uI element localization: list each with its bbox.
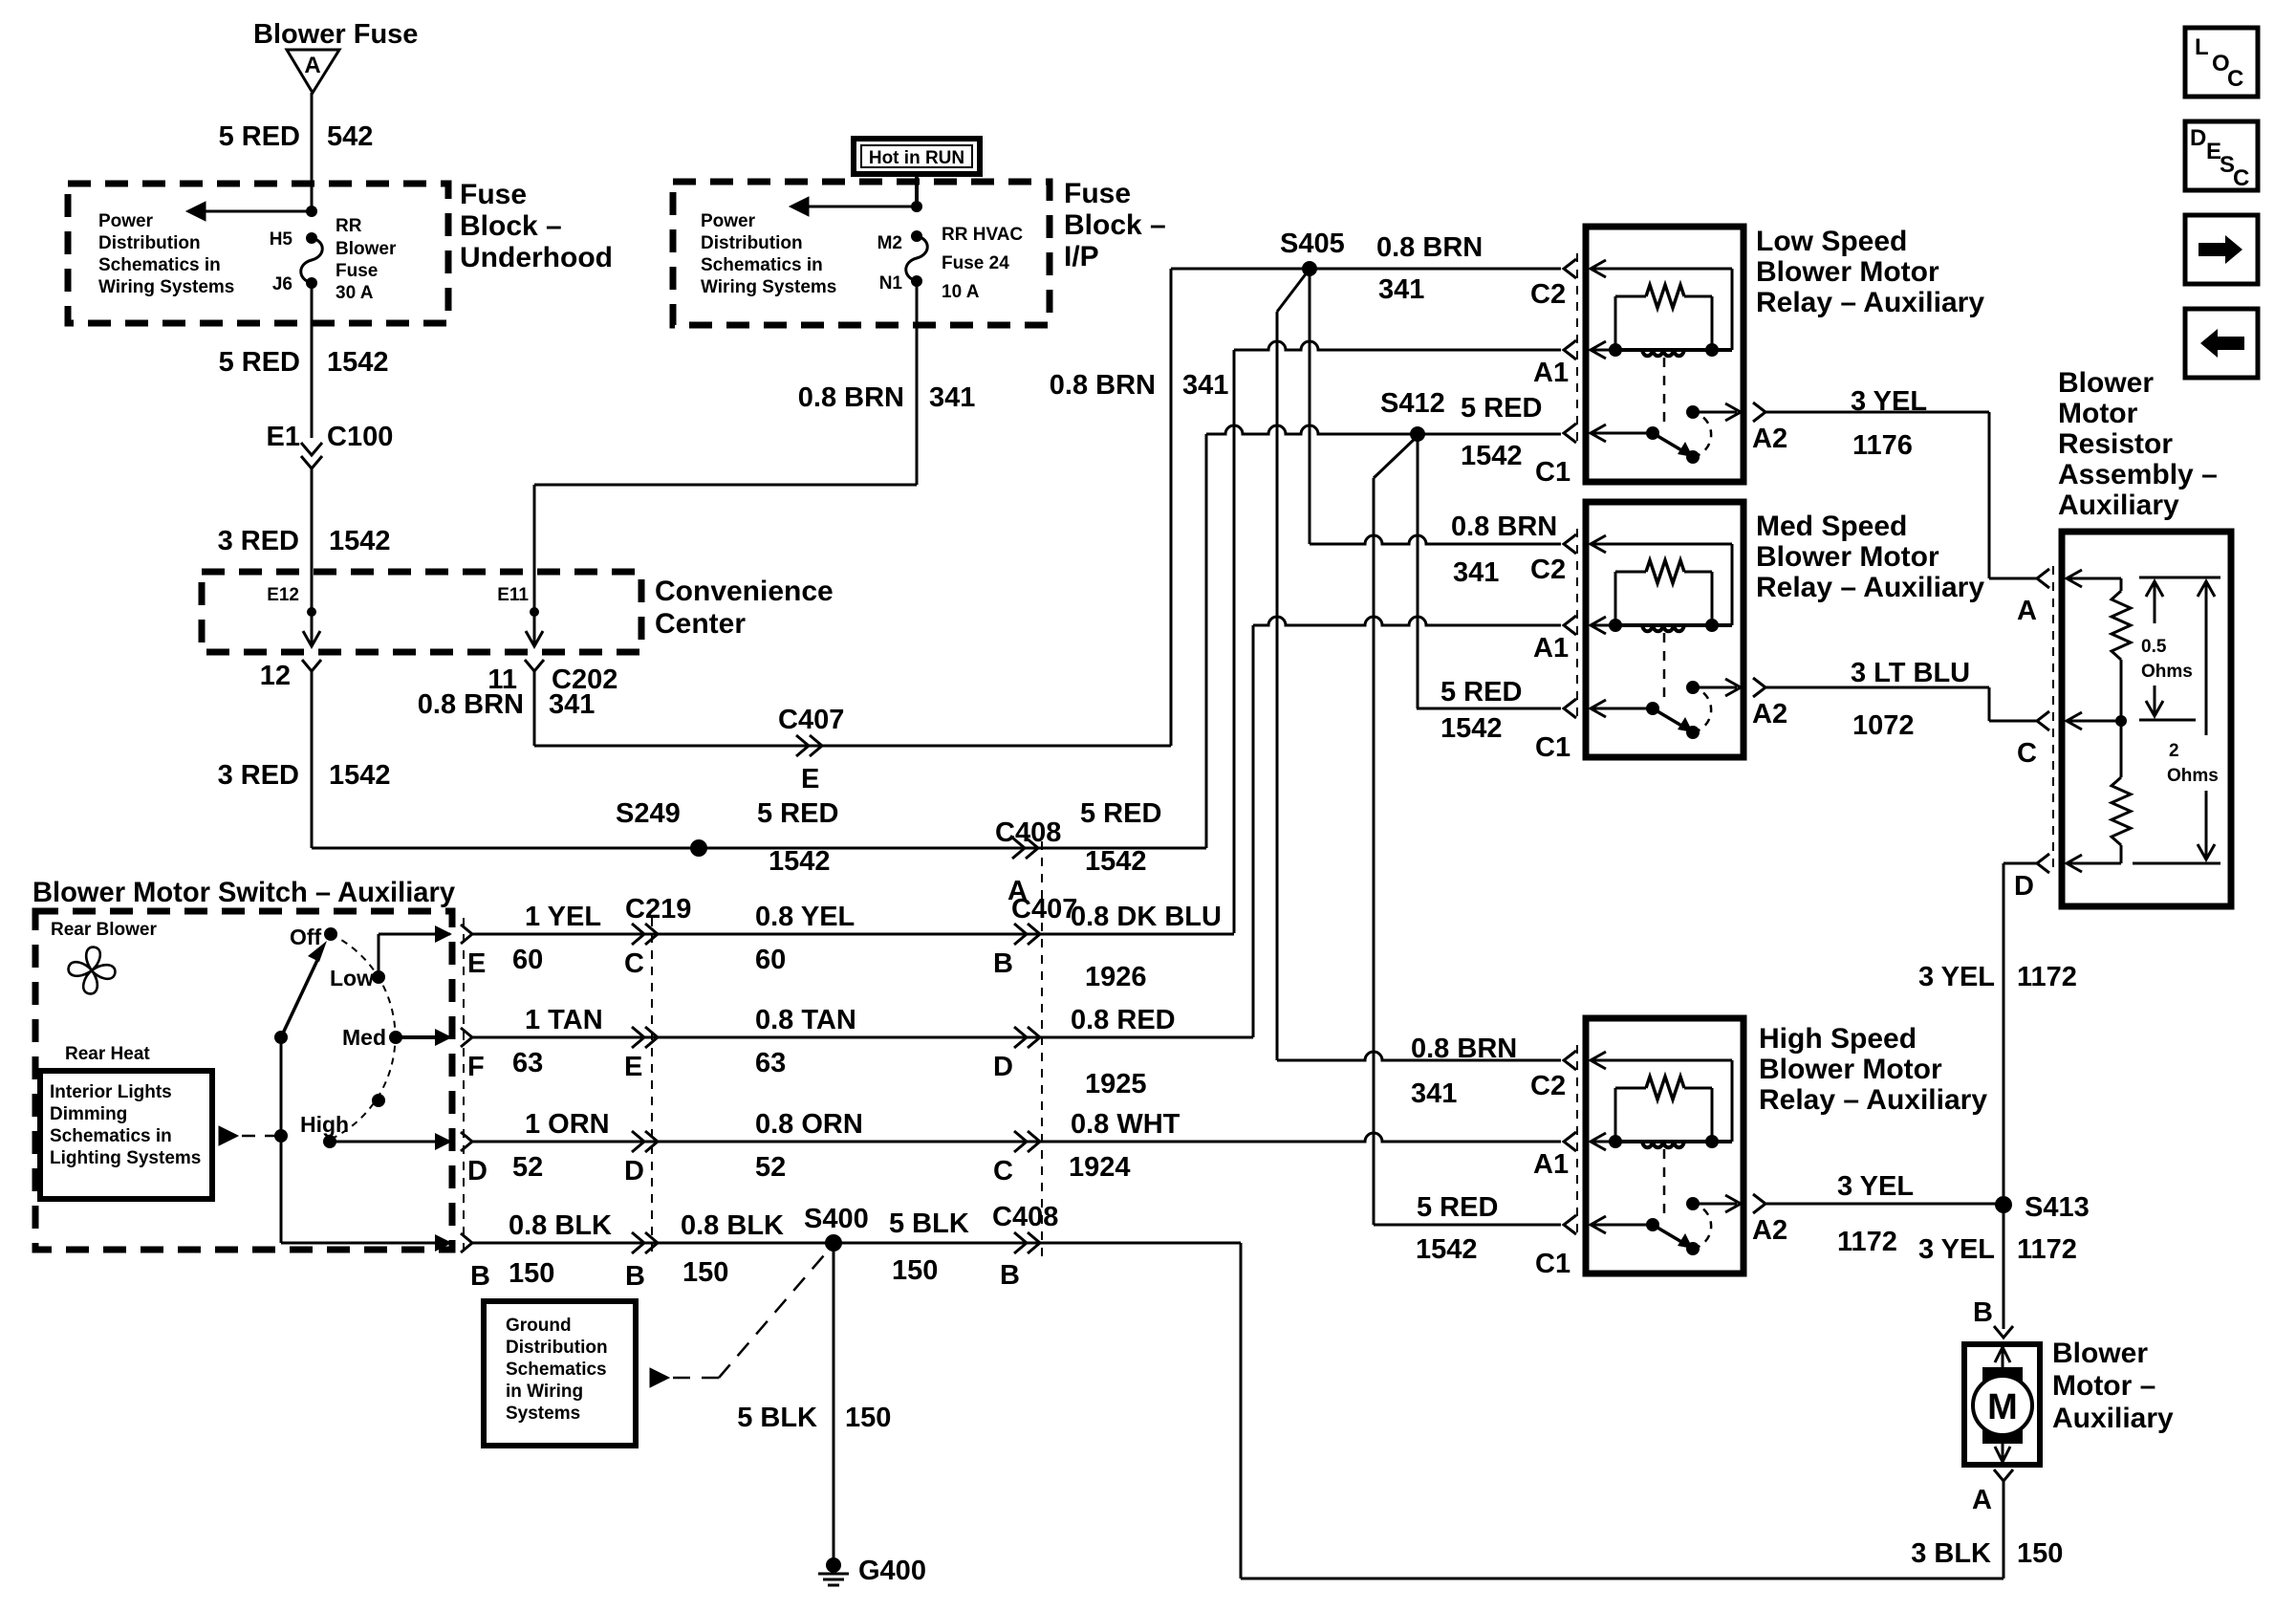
svg-text:C2: C2 [1530, 555, 1566, 585]
svg-text:C1: C1 [1535, 457, 1570, 488]
svg-text:Systems: Systems [506, 1404, 580, 1424]
svg-text:3 YEL: 3 YEL [1918, 962, 1995, 992]
svg-text:I/P: I/P [1064, 241, 1099, 272]
svg-text:Blower Motor Switch – Auxiliar: Blower Motor Switch – Auxiliary [32, 877, 455, 908]
svg-text:0.8 BRN: 0.8 BRN [798, 382, 904, 413]
svg-text:Motor –: Motor – [2052, 1370, 2155, 1402]
svg-text:1542: 1542 [327, 347, 389, 378]
svg-text:0.8 BRN: 0.8 BRN [1376, 232, 1483, 263]
svg-text:C407: C407 [778, 705, 844, 735]
svg-text:Distribution: Distribution [701, 233, 803, 253]
svg-text:A2: A2 [1752, 699, 1787, 729]
svg-text:0.8 BRN: 0.8 BRN [418, 689, 524, 720]
svg-text:A: A [304, 53, 320, 78]
svg-text:Resistor: Resistor [2058, 428, 2173, 460]
svg-text:L: L [2195, 34, 2209, 60]
svg-text:G400: G400 [858, 1556, 926, 1586]
svg-text:1172: 1172 [2017, 1234, 2077, 1265]
svg-text:B: B [470, 1261, 490, 1292]
svg-text:0.8 BLK: 0.8 BLK [681, 1210, 784, 1241]
svg-text:5 RED: 5 RED [757, 798, 838, 829]
svg-text:D: D [2190, 125, 2206, 151]
svg-text:5 RED: 5 RED [219, 121, 300, 152]
svg-text:5 RED: 5 RED [1417, 1192, 1498, 1223]
svg-text:Distribution: Distribution [98, 233, 201, 253]
svg-text:in Wiring: in Wiring [506, 1382, 583, 1402]
svg-text:A2: A2 [1752, 424, 1787, 454]
svg-text:B: B [625, 1261, 645, 1292]
svg-text:Center: Center [655, 608, 746, 640]
svg-text:C: C [2233, 165, 2249, 191]
svg-text:63: 63 [755, 1048, 786, 1078]
svg-text:B: B [1973, 1297, 1993, 1328]
svg-text:1542: 1542 [329, 760, 391, 791]
svg-text:Fuse: Fuse [336, 261, 378, 281]
svg-text:1542: 1542 [1440, 713, 1503, 744]
svg-text:0.8 TAN: 0.8 TAN [755, 1005, 856, 1035]
svg-text:3 RED: 3 RED [218, 760, 299, 791]
svg-text:1172: 1172 [1837, 1227, 1897, 1257]
svg-text:Relay – Auxiliary: Relay – Auxiliary [1759, 1084, 1987, 1116]
svg-text:63: 63 [512, 1048, 543, 1078]
svg-text:Blower: Blower [336, 239, 397, 259]
svg-text:1 TAN: 1 TAN [525, 1005, 603, 1035]
svg-text:H5: H5 [270, 229, 293, 250]
svg-text:A1: A1 [1533, 358, 1569, 388]
svg-text:F: F [467, 1052, 485, 1082]
svg-text:C100: C100 [327, 422, 393, 452]
svg-text:542: 542 [327, 121, 373, 152]
svg-text:D: D [2014, 871, 2034, 902]
svg-text:1926: 1926 [1085, 962, 1147, 992]
svg-text:Off: Off [290, 925, 322, 949]
svg-text:1072: 1072 [1852, 710, 1915, 741]
svg-text:341: 341 [1182, 370, 1228, 401]
svg-text:Relay – Auxiliary: Relay – Auxiliary [1756, 287, 1984, 318]
svg-text:Auxiliary: Auxiliary [2052, 1403, 2174, 1434]
svg-text:C1: C1 [1535, 1249, 1570, 1279]
svg-text:150: 150 [509, 1258, 554, 1289]
svg-text:Blower Motor: Blower Motor [1756, 541, 1939, 573]
svg-text:Auxiliary: Auxiliary [2058, 490, 2179, 521]
svg-text:1542: 1542 [1085, 846, 1147, 877]
svg-text:Ohms: Ohms [2141, 662, 2193, 682]
svg-text:Wiring Systems: Wiring Systems [701, 277, 836, 297]
svg-text:Schematics in: Schematics in [701, 255, 823, 275]
svg-text:Interior Lights: Interior Lights [50, 1082, 172, 1102]
svg-text:Lighting Systems: Lighting Systems [50, 1148, 201, 1168]
svg-text:Med Speed: Med Speed [1756, 511, 1907, 542]
svg-text:Blower Motor: Blower Motor [1756, 256, 1939, 288]
svg-text:Power: Power [98, 211, 154, 231]
svg-text:C2: C2 [1530, 1071, 1566, 1101]
svg-text:52: 52 [512, 1152, 543, 1183]
svg-text:C1: C1 [1535, 732, 1570, 763]
svg-text:3 YEL: 3 YEL [1837, 1171, 1914, 1202]
svg-text:52: 52 [755, 1152, 786, 1183]
svg-text:S412: S412 [1380, 388, 1445, 419]
svg-text:341: 341 [1411, 1078, 1457, 1109]
svg-text:Convenience: Convenience [655, 576, 834, 607]
svg-text:Schematics in: Schematics in [98, 255, 221, 275]
svg-text:E: E [467, 948, 486, 979]
svg-text:1176: 1176 [1852, 430, 1913, 461]
svg-text:RR HVAC: RR HVAC [942, 225, 1023, 245]
svg-text:Rear Blower: Rear Blower [51, 920, 157, 940]
svg-text:Low Speed: Low Speed [1756, 226, 1907, 257]
svg-text:B: B [1000, 1260, 1020, 1291]
svg-text:RR: RR [336, 216, 362, 236]
svg-text:E: E [801, 764, 819, 795]
svg-text:A: A [2017, 596, 2037, 626]
svg-text:Hot in RUN: Hot in RUN [869, 148, 964, 168]
svg-text:Assembly –: Assembly – [2058, 459, 2218, 490]
svg-text:3 YEL: 3 YEL [1851, 386, 1927, 417]
svg-text:0.5: 0.5 [2141, 637, 2167, 657]
svg-text:0.8 YEL: 0.8 YEL [755, 902, 855, 932]
svg-text:Block –: Block – [460, 210, 562, 242]
svg-text:1542: 1542 [1461, 441, 1523, 471]
svg-text:E: E [624, 1052, 642, 1082]
svg-text:E1: E1 [267, 422, 300, 452]
svg-text:Blower Motor: Blower Motor [1759, 1054, 1942, 1085]
svg-text:E11: E11 [497, 585, 529, 605]
svg-text:Power: Power [701, 211, 756, 231]
svg-text:Ground: Ground [506, 1316, 572, 1336]
svg-text:150: 150 [892, 1255, 938, 1286]
svg-text:Motor: Motor [2058, 398, 2138, 429]
svg-text:Fuse: Fuse [460, 179, 527, 210]
svg-text:Blower: Blower [2058, 367, 2154, 399]
svg-text:Schematics: Schematics [506, 1360, 607, 1380]
svg-text:10 A: 10 A [942, 282, 980, 302]
svg-text:2: 2 [2169, 741, 2179, 761]
svg-text:1542: 1542 [769, 846, 831, 877]
svg-text:12: 12 [260, 661, 291, 691]
svg-text:Schematics in: Schematics in [50, 1126, 172, 1146]
svg-text:341: 341 [1453, 557, 1499, 588]
svg-text:5 BLK: 5 BLK [889, 1208, 969, 1239]
svg-text:341: 341 [1378, 274, 1424, 305]
svg-text:Fuse 24: Fuse 24 [942, 253, 1009, 273]
svg-text:0.8 BLK: 0.8 BLK [509, 1210, 612, 1241]
svg-text:1924: 1924 [1069, 1152, 1131, 1183]
svg-text:Distribution: Distribution [506, 1338, 608, 1358]
svg-text:C219: C219 [625, 894, 691, 925]
svg-text:Blower Fuse: Blower Fuse [253, 19, 418, 50]
svg-text:3 RED: 3 RED [218, 526, 299, 556]
svg-text:Underhood: Underhood [460, 242, 613, 273]
svg-text:Med: Med [342, 1025, 386, 1050]
svg-text:150: 150 [845, 1403, 891, 1433]
svg-text:Low: Low [330, 966, 374, 991]
svg-text:C2: C2 [1530, 279, 1566, 310]
svg-text:341: 341 [929, 382, 975, 413]
svg-text:30 A: 30 A [336, 283, 374, 303]
svg-text:5 RED: 5 RED [1440, 677, 1522, 708]
svg-text:C407: C407 [1011, 894, 1077, 925]
svg-text:High Speed: High Speed [1759, 1023, 1917, 1055]
svg-text:E12: E12 [267, 585, 299, 605]
svg-text:M2: M2 [877, 233, 902, 253]
svg-text:1 YEL: 1 YEL [525, 902, 601, 932]
svg-text:Block –: Block – [1064, 209, 1166, 241]
svg-text:C: C [993, 1156, 1013, 1186]
svg-text:C: C [624, 948, 644, 979]
svg-text:5 RED: 5 RED [219, 347, 300, 378]
svg-text:0.8 DK BLU: 0.8 DK BLU [1071, 902, 1222, 932]
svg-text:Dimming: Dimming [50, 1104, 127, 1124]
svg-text:A: A [1972, 1485, 1992, 1515]
svg-text:150: 150 [2017, 1538, 2063, 1569]
svg-text:S413: S413 [2025, 1192, 2090, 1223]
svg-text:S249: S249 [616, 798, 681, 829]
svg-text:B: B [993, 948, 1013, 979]
svg-text:Rear Heat: Rear Heat [65, 1044, 150, 1064]
svg-text:N1: N1 [879, 273, 903, 294]
svg-text:5 RED: 5 RED [1080, 798, 1161, 829]
svg-text:0.8 RED: 0.8 RED [1071, 1005, 1176, 1035]
svg-text:60: 60 [755, 945, 786, 975]
svg-text:Wiring Systems: Wiring Systems [98, 277, 234, 297]
svg-text:3 BLK: 3 BLK [1911, 1538, 1991, 1569]
svg-text:3 LT BLU: 3 LT BLU [1851, 658, 1970, 688]
svg-text:5 RED: 5 RED [1461, 393, 1542, 424]
svg-text:C408: C408 [995, 817, 1061, 848]
svg-text:A1: A1 [1533, 1149, 1569, 1180]
svg-text:1542: 1542 [1416, 1234, 1478, 1265]
svg-text:A2: A2 [1752, 1215, 1787, 1246]
svg-text:D: D [467, 1156, 487, 1186]
svg-text:3 YEL: 3 YEL [1918, 1234, 1995, 1265]
svg-text:60: 60 [512, 945, 543, 975]
svg-text:S405: S405 [1280, 229, 1345, 259]
svg-text:1 ORN: 1 ORN [525, 1109, 610, 1140]
svg-text:341: 341 [549, 689, 595, 720]
svg-text:S400: S400 [804, 1204, 869, 1234]
svg-text:1925: 1925 [1085, 1069, 1147, 1099]
svg-text:5 BLK: 5 BLK [737, 1403, 817, 1433]
svg-text:M: M [1987, 1387, 2018, 1427]
svg-text:0.8 BRN: 0.8 BRN [1451, 512, 1557, 542]
svg-text:C: C [2227, 66, 2243, 92]
svg-text:C408: C408 [992, 1202, 1058, 1232]
svg-text:150: 150 [682, 1257, 728, 1288]
svg-text:0.8 BRN: 0.8 BRN [1050, 370, 1156, 401]
svg-text:C: C [2017, 738, 2037, 769]
svg-text:J6: J6 [272, 274, 292, 294]
svg-text:1542: 1542 [329, 526, 391, 556]
svg-text:0.8 WHT: 0.8 WHT [1071, 1109, 1180, 1140]
svg-text:0.8 ORN: 0.8 ORN [755, 1109, 863, 1140]
svg-text:Ohms: Ohms [2167, 766, 2219, 786]
svg-text:D: D [993, 1052, 1013, 1082]
svg-text:A1: A1 [1533, 633, 1569, 664]
svg-text:Blower: Blower [2052, 1338, 2148, 1369]
svg-text:Relay – Auxiliary: Relay – Auxiliary [1756, 572, 1984, 603]
svg-text:1172: 1172 [2017, 962, 2077, 992]
svg-text:D: D [624, 1156, 644, 1186]
svg-text:Fuse: Fuse [1064, 178, 1131, 209]
svg-text:0.8 BRN: 0.8 BRN [1411, 1034, 1517, 1064]
